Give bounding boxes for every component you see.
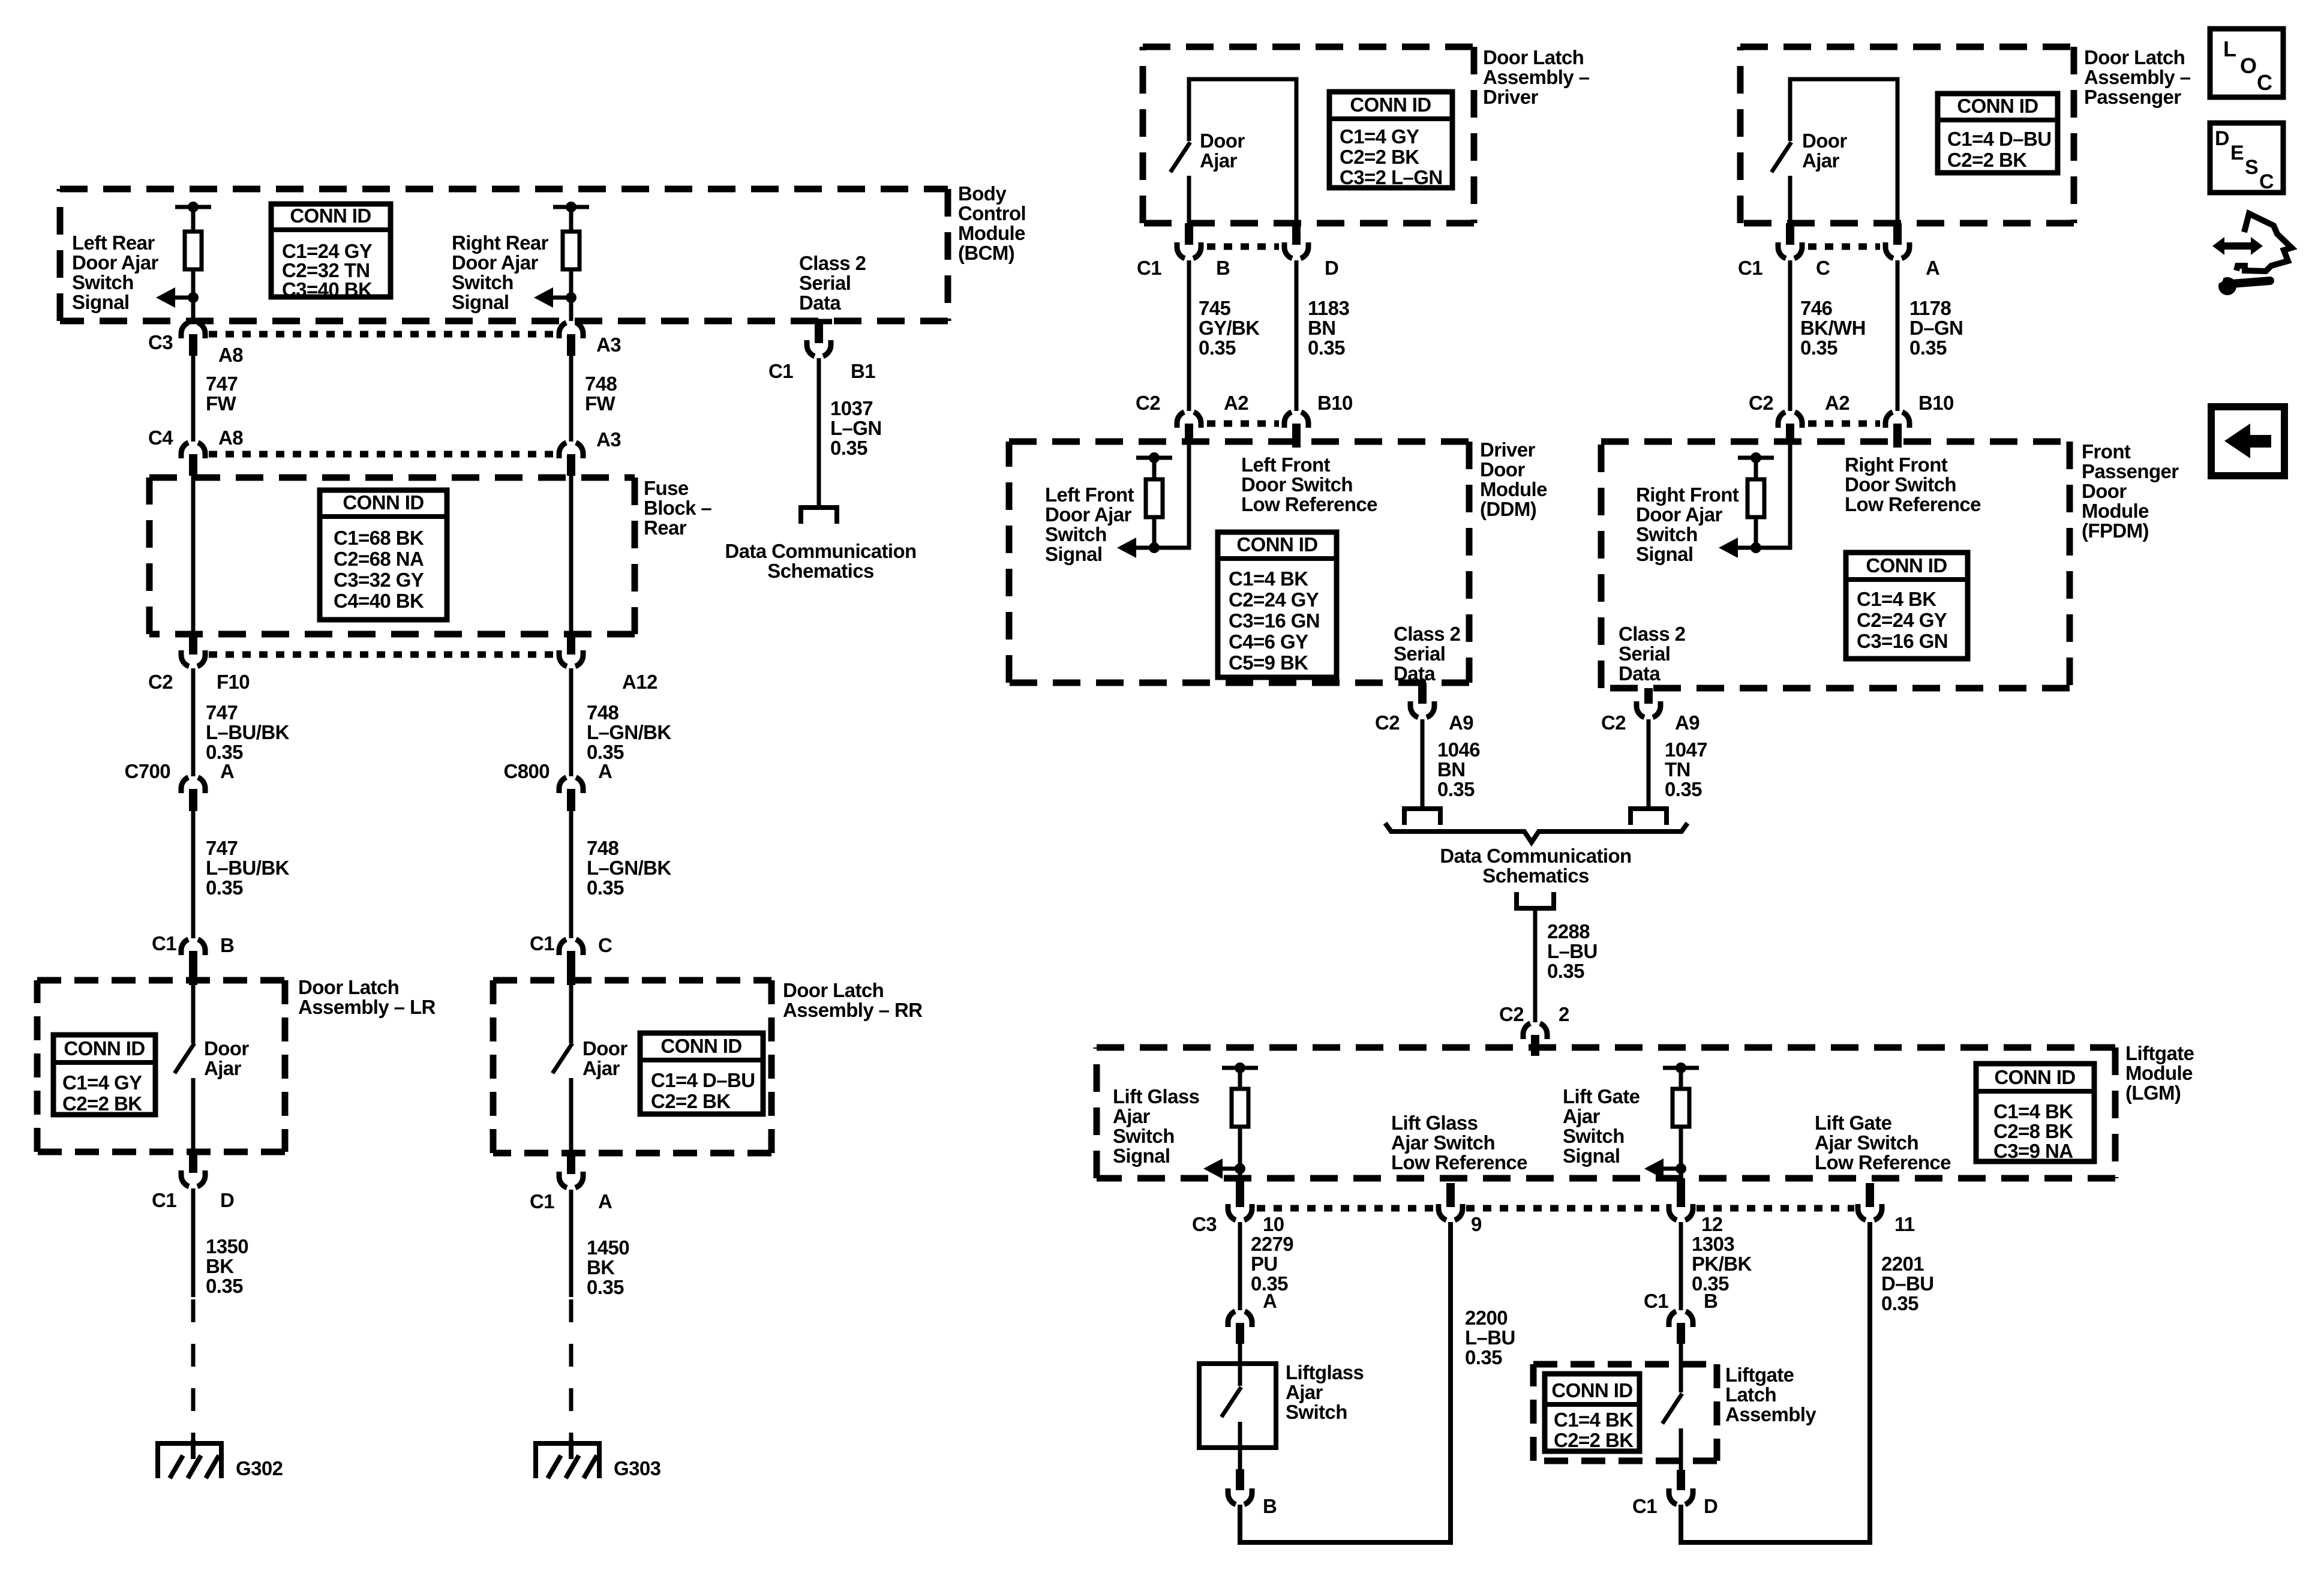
off-page terminator (DDM class 2) [1404,809,1440,825]
svg-text:C2=24 GY: C2=24 GY [1857,609,1947,631]
svg-text:B: B [1263,1495,1277,1517]
table: liftgate latch CONN ID [1545,1374,1640,1451]
svg-text:745: 745 [1199,297,1231,319]
label: Lift Glass Ajar Switch Signal [1113,1085,1199,1167]
svg-text:Switch: Switch [452,271,514,293]
svg-text:0.35: 0.35 [587,876,624,899]
svg-text:C1: C1 [152,932,176,954]
svg-text:Switch: Switch [1563,1125,1625,1147]
node: LGM rail (lift glass) [1222,1062,1258,1073]
connector C1 pin B (arc, liftgate) [1669,1311,1693,1327]
connector C1 pin B (arc, LR latch) [181,939,205,955]
svg-text:C4: C4 [148,427,173,449]
wire 2279 PU 0.35 [1238,1222,1242,1310]
svg-text:C3: C3 [148,331,173,353]
svg-text:FW: FW [585,392,616,415]
wire 1178 D-GN 0.35 [1896,260,1900,411]
pin stub 9 [1446,1183,1455,1207]
junction: lift gate signal tap [1676,1163,1686,1174]
svg-text:Data Communication: Data Communication [725,540,916,562]
pin stub C1-D (liftgate) [1677,1470,1685,1490]
label: wire 1183 BN 0.35 [1308,297,1349,359]
module box: Liftgate Latch Assembly [1533,1364,1717,1461]
module box: Body Control Module (BCM) [60,189,948,321]
svg-text:C800: C800 [504,760,550,782]
wire 748 L-GN/BK 0.35 (upper) [569,668,574,776]
svg-text:Rear: Rear [644,517,687,539]
svg-text:Door Latch: Door Latch [1483,46,1584,68]
svg-text:Ajar: Ajar [1563,1105,1601,1127]
svg-text:Low Reference: Low Reference [1391,1151,1527,1173]
connector row C2/B10 (dotted) [1207,421,1279,427]
svg-text:C1=68 BK: C1=68 BK [334,527,424,549]
svg-text:C2=2 BK: C2=2 BK [1340,146,1419,168]
svg-text:B: B [220,934,234,956]
svg-text:(FPDM): (FPDM) [2082,520,2149,542]
connector C3 pin 10 (cup) [1228,1204,1252,1220]
svg-text:Ajar: Ajar [1802,149,1840,172]
svg-text:Ajar: Ajar [1200,149,1238,172]
label: Data Communication Schematics (left) [725,540,916,582]
wire: BCM left rear, rail to resistor [191,207,196,232]
svg-text:L–GN/BK: L–GN/BK [587,721,671,743]
svg-text:Door: Door [1480,458,1525,481]
svg-text:Left Front: Left Front [1241,454,1331,476]
svg-text:CONN ID: CONN ID [1551,1379,1632,1401]
wire 747 L-BU/BK 0.35 (upper) [191,668,196,776]
svg-text:C1: C1 [1644,1290,1668,1312]
resistor: left rear door ajar pull-up [185,232,202,269]
arrow: Right Rear Door Ajar Switch Signal [534,287,571,308]
pin stub 11 [1866,1183,1874,1207]
connector C2 A9 (cup, DDM) [1410,701,1434,718]
svg-text:747: 747 [206,373,238,395]
svg-text:A8: A8 [218,427,243,449]
connector row C2/B10 passenger (dotted) [1808,421,1880,427]
svg-text:PU: PU [1251,1253,1278,1275]
pin stub B10 [1292,424,1301,448]
svg-text:B: B [1704,1290,1718,1312]
svg-text:C2=2 BK: C2=2 BK [651,1090,731,1112]
svg-text:G302: G302 [236,1457,283,1479]
svg-text:Switch: Switch [72,271,134,293]
svg-text:B1: B1 [851,360,875,382]
svg-text:C1=4 BK: C1=4 BK [1857,588,1936,610]
svg-text:0.35: 0.35 [1881,1292,1918,1314]
svg-text:(LGM): (LGM) [2125,1082,2181,1104]
svg-text:0.35: 0.35 [1308,337,1345,359]
svg-text:Fuse: Fuse [644,477,689,499]
label: Driver Door Module (DDM) [1480,439,1547,520]
svg-text:Signal: Signal [72,291,129,313]
svg-text:C2: C2 [148,671,173,693]
svg-text:C2=8 BK: C2=8 BK [1993,1120,2073,1142]
svg-text:Serial: Serial [799,272,851,294]
svg-text:A: A [1263,1290,1277,1312]
svg-text:Door: Door [204,1037,249,1059]
svg-text:BK: BK [587,1256,615,1278]
connector C800 pin A (arc) [559,778,583,793]
wire: LGM rail to resistor (lift glass) [1238,1068,1242,1089]
svg-text:BN: BN [1308,317,1335,339]
svg-text:1450: 1450 [587,1236,629,1259]
table: driver latch CONN ID [1329,92,1452,188]
svg-text:D–GN: D–GN [1909,317,1963,339]
svg-text:Signal: Signal [1563,1145,1620,1167]
wire: FPDM rail to resistor [1754,458,1758,479]
svg-text:C3=2 L–GN: C3=2 L–GN [1340,166,1443,188]
svg-text:D: D [1704,1495,1718,1517]
connector C1 D (cup, LR) [181,1170,205,1187]
wire through fuse block (left) [191,476,196,634]
resistor: left front door ajar (DDM) [1146,479,1163,517]
node: LGM rail (lift gate) [1663,1062,1699,1073]
label: Left Front Door Switch Low Reference [1241,454,1377,515]
svg-text:Switch: Switch [1636,523,1698,545]
connector pin stub C1-B1 [815,322,823,343]
pin stub C2-A9 (DDM) [1418,683,1427,704]
svg-text:C5=9 BK: C5=9 BK [1229,652,1308,674]
svg-text:A: A [598,1190,612,1212]
svg-text:C3=16 GN: C3=16 GN [1229,610,1320,632]
svg-text:Left Rear: Left Rear [72,232,155,254]
connector row LGM (dotted, seg 2) [1466,1205,1665,1212]
svg-text:D: D [1325,257,1338,279]
svg-text:747: 747 [206,701,238,724]
svg-text:C3: C3 [1192,1213,1217,1235]
svg-text:Door Switch: Door Switch [1241,473,1353,496]
svg-text:Driver: Driver [1483,86,1539,108]
svg-text:B10: B10 [1918,392,1954,414]
svg-text:Signal: Signal [1113,1145,1170,1167]
label: Data Communication Schematics (middle) [1440,845,1631,887]
pin stub B (liftgate) [1677,1323,1685,1344]
svg-text:Ajar: Ajar [1113,1105,1151,1127]
pin stub C1-C [567,951,575,985]
svg-text:0.35: 0.35 [830,437,867,459]
switch: Door Ajar (RR) [553,1043,572,1073]
svg-text:0.35: 0.35 [206,876,243,899]
svg-text:Assembly: Assembly [1725,1403,1816,1425]
module box: Door Latch Assembly - Passenger [1740,47,2074,223]
pin stub above C2-F10 [189,634,197,655]
svg-text:2279: 2279 [1251,1233,1293,1255]
svg-text:Door Latch: Door Latch [298,976,399,998]
svg-text:Serial: Serial [1394,643,1445,665]
label: Right Front Door Switch Low Reference [1845,454,1981,515]
table: BCM CONN ID [271,204,391,301]
svg-text:Liftgate: Liftgate [1725,1364,1794,1386]
connector C4 pin A3 (arc) [559,443,583,458]
svg-text:C3=40 BK: C3=40 BK [282,278,373,301]
svg-text:A12: A12 [622,671,657,693]
label: wire 1037 L-GN 0.35 [830,397,882,459]
svg-text:Door Ajar: Door Ajar [452,251,538,274]
svg-text:Latch: Latch [1725,1383,1776,1406]
wire: BCM right rear, rail to resistor [569,207,574,232]
svg-text:A2: A2 [1224,392,1248,414]
svg-text:L–GN/BK: L–GN/BK [587,857,671,879]
svg-text:748: 748 [585,373,617,395]
label: Door Ajar (RR) [582,1037,627,1079]
label: Door Latch Assembly - Driver [1483,46,1590,108]
svg-text:Block –: Block – [644,497,711,519]
svg-text:Assembly – LR: Assembly – LR [298,996,436,1018]
svg-text:Lift Gate: Lift Gate [1815,1112,1892,1134]
pin stub above A12 [567,634,575,655]
svg-text:1303: 1303 [1692,1233,1734,1255]
svg-text:CONN ID: CONN ID [1957,95,2038,117]
svg-text:Module: Module [958,222,1025,244]
svg-text:0.35: 0.35 [1465,1346,1502,1368]
svg-text:C2: C2 [1601,712,1626,734]
svg-text:Data: Data [1619,662,1661,685]
svg-text:2: 2 [1559,1003,1569,1025]
off-page source (wire 2288) [1517,892,1554,908]
svg-text:C700: C700 [125,760,171,782]
svg-text:10: 10 [1263,1213,1284,1235]
svg-text:2288: 2288 [1547,920,1590,942]
svg-text:D: D [220,1189,234,1211]
module box: Door Latch Assembly - LR [37,980,285,1152]
pin stub C1-D (LR) [189,1152,197,1173]
svg-text:Driver: Driver [1480,439,1536,461]
label: wire 2200 L-BU 0.35 [1465,1307,1515,1368]
wire 1047 TN 0.35 [1647,719,1651,809]
icon: data link (double arrow + connector outline + wrench) [2212,214,2292,295]
svg-text:C1=4 GY: C1=4 GY [62,1071,142,1094]
svg-text:C2=2 BK: C2=2 BK [1554,1429,1634,1451]
connector C2 F10 (cup) [181,650,205,667]
svg-text:C2=68 NA: C2=68 NA [334,548,424,570]
svg-text:TN: TN [1665,758,1691,781]
label: wire 1450 BK 0.35 [587,1236,629,1298]
svg-text:C1=4 D–BU: C1=4 D–BU [1947,128,2051,150]
table: FPDM CONN ID [1846,553,1968,659]
off-page terminator (class 2 to data comm) [801,508,837,524]
label: Right Rear Door Ajar Switch Signal [452,232,549,313]
svg-text:S: S [2245,156,2259,179]
wire: passenger latch internal loop [1790,79,1897,223]
svg-text:0.35: 0.35 [1800,337,1837,359]
pin stub C1-D (driver latch) [1292,223,1301,245]
connector pin 11 (cup) [1858,1204,1882,1220]
svg-text:Liftglass: Liftglass [1286,1361,1364,1383]
svg-text:C2=2 BK: C2=2 BK [1947,149,2027,171]
svg-text:C2: C2 [1375,712,1400,734]
svg-text:1047: 1047 [1665,739,1707,761]
connector row C2 (dotted) [209,652,557,658]
svg-text:CONN ID: CONN ID [1350,94,1431,116]
icon: LOC box [2210,29,2283,97]
svg-text:Door Latch: Door Latch [783,979,884,1001]
connector C1 B (cup, driver latch) [1177,242,1201,259]
wire below liftglass switch [1238,1422,1242,1469]
svg-text:A3: A3 [596,334,621,356]
svg-text:0.35: 0.35 [587,1276,624,1298]
connector B10 (arc, FPDM) [1885,412,1909,428]
connector pin 9 (cup) [1439,1204,1463,1220]
pin stub C1-C (passenger latch) [1786,223,1794,245]
switch: Liftglass Ajar [1221,1387,1241,1417]
pin stub pin 2 [1531,1035,1539,1056]
wire: DDM pin A2 down and left to junction [1135,444,1189,548]
wire: BCM right rear, resistor to connector C3 [569,269,574,321]
connector row LGM (dotted, seg 1) [1257,1205,1435,1212]
label: Lift Glass Ajar Switch Low Reference [1391,1112,1527,1173]
label: Lift Gate Ajar Switch Signal [1563,1085,1640,1167]
svg-text:D–BU: D–BU [1881,1272,1933,1295]
label: wire 1047 TN 0.35 [1665,739,1707,800]
connector C1 D (cup, liftgate) [1669,1488,1693,1505]
junction: left rear signal tap [188,292,199,303]
svg-text:2201: 2201 [1881,1253,1924,1275]
svg-text:E: E [2230,142,2244,164]
svg-text:748: 748 [587,701,619,724]
svg-text:1178: 1178 [1909,297,1951,319]
svg-text:F10: F10 [217,671,250,693]
svg-text:Left Front: Left Front [1045,484,1134,506]
svg-text:Door Switch: Door Switch [1845,473,1956,496]
svg-text:FW: FW [206,392,237,415]
label: wire 747 L-BU/BK 0.35 (upper) [206,701,290,763]
connector C3 pin A8 (arc) [181,323,205,338]
label: Liftglass Ajar Switch [1286,1361,1364,1423]
svg-text:Liftgate: Liftgate [2125,1042,2194,1064]
svg-text:CONN ID: CONN ID [660,1035,741,1057]
connector C2 A2 (arc, FPDM) [1778,412,1802,428]
label: Left Front Door Ajar Switch Signal [1045,484,1134,565]
svg-text:C1: C1 [152,1189,176,1211]
wire 1183 BN 0.35 [1295,260,1299,411]
wire 1046 BN 0.35 [1421,719,1425,809]
label: Body Control Module (BCM) [958,182,1026,264]
table: LGM CONN ID [1976,1064,2094,1162]
wire: Class 2 T-bar at BCM edge [806,319,832,325]
wire 1450 BK (dashed to ground) [569,1299,574,1442]
wire: FPDM pin A2 down and left to junction [1737,444,1790,548]
connector C1 D (cup, driver latch) [1284,242,1308,259]
wire 1303 PK/BK 0.35 [1679,1222,1683,1310]
wire 748 FW [569,356,574,442]
svg-text:746: 746 [1800,297,1833,319]
connector row C1 driver latch (dotted) [1207,244,1279,250]
svg-text:C3=32 GY: C3=32 GY [334,569,424,591]
module box: Door Latch Assembly - RR [493,980,771,1153]
pin stub A (liftglass) [1236,1323,1244,1344]
pin stub B10 (FPDM) [1893,424,1902,448]
svg-text:C2=24 GY: C2=24 GY [1229,589,1319,611]
svg-text:Passenger: Passenger [2084,86,2181,108]
label: wire 747 FW [206,373,238,415]
node: DDM internal rail [1136,452,1172,463]
label: Left Rear Door Ajar Switch Signal [72,232,158,313]
svg-text:0.35: 0.35 [1547,960,1584,982]
svg-text:CONN ID: CONN ID [1866,554,1947,577]
connector pin A (arc, liftglass) [1228,1311,1252,1327]
pin stub C1-B [189,951,197,985]
svg-text:Ajar: Ajar [1286,1381,1323,1403]
svg-text:Control: Control [958,202,1026,224]
pin stub B (liftglass) [1236,1469,1244,1490]
wire 2288 L-BU 0.35 [1533,908,1538,1022]
svg-text:Class 2: Class 2 [1394,623,1461,645]
svg-text:C1=4 BK: C1=4 BK [1993,1100,2073,1122]
arrow: Right Front Door Ajar Switch Signal [1719,538,1756,558]
wire: lift gate resistor to pin 12 [1679,1127,1683,1178]
connector B10 (arc) [1284,412,1308,428]
resistor: right front door ajar (FPDM) [1747,479,1764,517]
svg-text:A: A [1926,257,1939,279]
svg-text:L: L [2223,37,2236,61]
connector C2 pin 2 (arc, LGM) [1523,1023,1547,1039]
arrow: Left Rear Door Ajar Switch Signal [156,287,193,308]
svg-text:(BCM): (BCM) [958,242,1014,264]
label: Class 2 Serial Data (DDM) [1394,623,1461,685]
label: wire 748 FW [585,373,617,415]
svg-text:C1: C1 [530,1190,554,1212]
wire 747 L-BU/BK 0.35 (lower) [191,811,196,938]
svg-text:0.35: 0.35 [1909,337,1947,359]
module box: Driver Door Module (DDM) [1009,442,1469,683]
junction: lift glass signal tap [1235,1163,1245,1174]
svg-text:Serial: Serial [1619,643,1670,665]
wire: FPDM resistor to junction [1754,517,1758,548]
svg-text:A: A [598,760,612,782]
svg-text:Door Ajar: Door Ajar [1045,503,1131,526]
wire 745 GY/BK 0.35 [1187,260,1191,411]
pin stub 12 [1677,1178,1685,1207]
connector pin B (cup, liftglass) [1228,1488,1252,1505]
junction: right front signal tap [1750,542,1761,553]
label: wire 1046 BN 0.35 [1437,739,1480,800]
svg-text:A: A [220,760,234,782]
connector C1 A (cup, passenger latch) [1885,242,1909,259]
svg-text:Ajar: Ajar [204,1057,242,1079]
label: wire 2201 D-BU 0.35 [1881,1253,1933,1314]
wire below liftgate latch switch [1679,1428,1683,1470]
wire 748 L-GN/BK 0.35 (lower) [569,811,574,938]
svg-text:A9: A9 [1675,712,1700,734]
svg-text:A2: A2 [1825,392,1849,414]
label: wire 748 L-GN/BK 0.35 (upper) [587,701,671,763]
svg-text:9: 9 [1471,1213,1482,1235]
resistor: right rear door ajar pull-up [563,232,580,269]
pin stub below C4 right [567,454,575,476]
svg-text:C1=4 GY: C1=4 GY [1340,125,1419,148]
svg-text:A9: A9 [1449,712,1473,734]
label: Class 2 Serial Data (BCM) [799,252,866,314]
connector C700 pin A (arc) [181,778,205,793]
svg-text:Lift Glass: Lift Glass [1113,1085,1199,1107]
svg-text:Right Front: Right Front [1845,454,1948,476]
svg-text:C: C [598,934,612,956]
svg-text:Data: Data [1394,662,1436,685]
svg-text:Module: Module [2082,500,2149,522]
wire: LGM rail to resistor (lift gate) [1679,1068,1683,1089]
svg-text:L–BU/BK: L–BU/BK [206,721,290,743]
svg-text:C1: C1 [1632,1495,1657,1517]
connector row C1 passenger latch (dotted) [1808,244,1880,250]
label: wire 1350 BK 0.35 [206,1235,248,1297]
svg-text:C3=9 NA: C3=9 NA [1993,1140,2073,1162]
label: Door Latch Assembly - Passenger [2084,46,2191,108]
pin stub A2 (FPDM) [1786,424,1794,444]
svg-text:12: 12 [1701,1213,1723,1235]
resistor: lift gate ajar (LGM) [1673,1089,1689,1127]
svg-text:Signal: Signal [1636,543,1693,565]
connector C1 A (cup, RR) [559,1172,583,1188]
